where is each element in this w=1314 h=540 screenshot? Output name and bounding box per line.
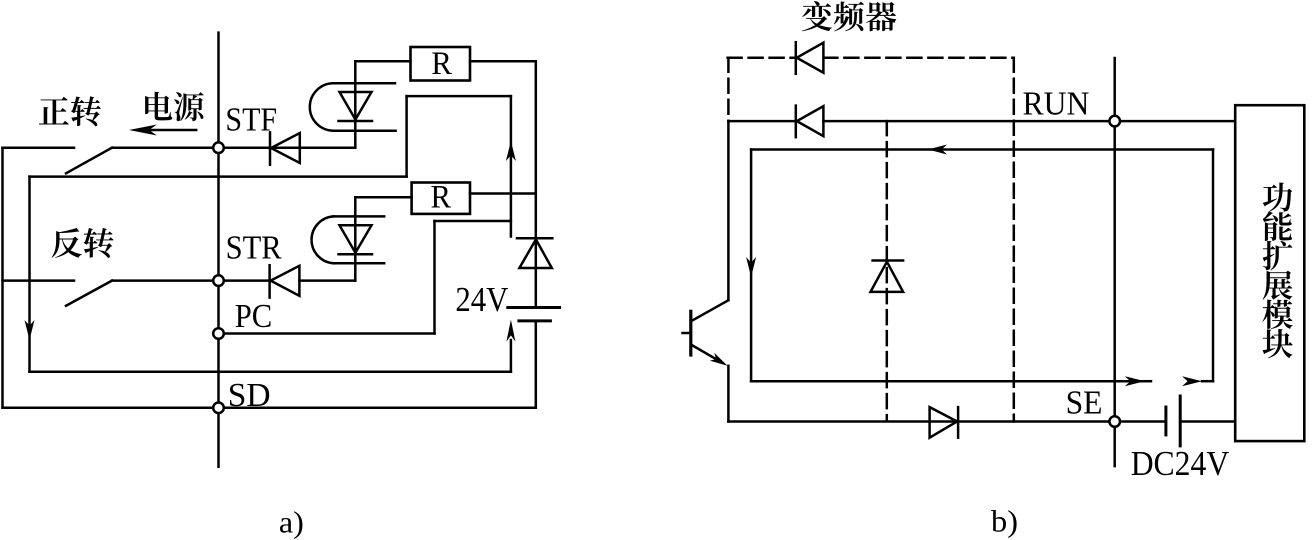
- label 变频器 (inverter): [802, 1, 896, 31]
- wire inner top horizontal: [30, 175, 407, 178]
- wire node-to-LED1: [219, 146, 356, 149]
- svg-text:a): a): [279, 505, 304, 540]
- wire PC: [219, 332, 435, 335]
- diode D2 (STR input): [270, 265, 300, 297]
- wire loop bottom-right (b): [1202, 380, 1213, 383]
- wire STR: [112, 279, 219, 282]
- svg-text:RUN: RUN: [1023, 86, 1090, 123]
- svg-text:R: R: [431, 180, 452, 216]
- wire loop top horizontal: [407, 95, 511, 98]
- optocoupler U2 LED (STR): [312, 197, 385, 280]
- wire loop top (b): [751, 148, 1213, 151]
- switch S1 正转 contact: [3, 148, 113, 174]
- arrow current down (b left): [746, 257, 756, 277]
- node SE terminal: [1109, 416, 1120, 427]
- diode D5 (freewheel, dashed): [871, 261, 904, 292]
- arrow current right (b bottom 1): [1125, 376, 1145, 386]
- wire SD left: [3, 407, 219, 410]
- resistor R2: [412, 180, 470, 216]
- wire R1-to-24V rail: [470, 60, 536, 63]
- arrow current down on inner left vertical: [25, 320, 35, 340]
- arrow current up toward 24V source: [506, 320, 515, 372]
- wire LED2-to-R2: [355, 196, 411, 199]
- wire loop left (b): [750, 150, 753, 382]
- wire RUN stub above: [1113, 58, 1116, 121]
- wire collector up: [727, 121, 730, 300]
- optocoupler U1 LED (STF): [310, 61, 396, 147]
- wire loop left vertical: [405, 96, 408, 177]
- label 正转 (forward): [39, 96, 101, 126]
- diode D3 (dashed RUN path): [796, 42, 824, 74]
- wire RUN left: [728, 120, 795, 123]
- wire loop right (b): [1212, 150, 1215, 382]
- label 电源 (power source): [145, 92, 204, 121]
- wire left outer vertical: [1, 148, 4, 408]
- svg-text:SE: SE: [1066, 384, 1103, 421]
- wire loop bottom horizontal: [30, 371, 511, 374]
- wire inner left vertical: [28, 177, 31, 372]
- wire dashed middle vertical: [886, 121, 889, 420]
- svg-text:DC24V: DC24V: [1131, 444, 1230, 483]
- svg-text:R: R: [431, 46, 452, 82]
- arrow current right (b bottom 2): [1182, 376, 1202, 386]
- transistor Q1 (open collector output): [683, 300, 729, 366]
- wire dashed right vertical: [1013, 58, 1016, 422]
- zener diode VZ (24V clamp): [517, 238, 552, 268]
- resistor R1: [411, 46, 471, 82]
- wire SD: [219, 407, 536, 410]
- node STR terminal: [213, 275, 224, 286]
- function expansion module box: [1235, 105, 1304, 441]
- wire STF: [112, 146, 219, 149]
- wire dashed left vertical: [727, 58, 730, 121]
- battery 24V cell: [508, 308, 560, 321]
- svg-text:STF: STF: [225, 102, 277, 139]
- wire LED1-to-R1: [355, 60, 410, 63]
- diode D1 (STF input): [270, 132, 300, 164]
- svg-text:STR: STR: [226, 229, 282, 266]
- node RUN terminal: [1109, 116, 1120, 127]
- wire D2-to-LED2: [299, 279, 355, 282]
- label 反转 (reverse): [51, 228, 113, 258]
- terminal bus vertical line: [217, 33, 220, 467]
- arrow 电源 direction (left): [129, 125, 196, 136]
- wire R2-to-24V rail: [470, 192, 536, 195]
- wire 24V rail upper: [535, 61, 538, 307]
- arrow current left (b top): [928, 145, 947, 155]
- label 功能扩展模块 (vertical): [1262, 182, 1292, 358]
- node SD terminal: [213, 403, 224, 414]
- svg-text:SD: SD: [228, 377, 271, 414]
- wire RUN: [823, 120, 1235, 123]
- arrow current up (upper): [506, 141, 516, 161]
- wire 24V rail lower: [535, 321, 538, 408]
- wire PC riser vertical: [433, 221, 436, 334]
- diode D4 (RUN input): [796, 106, 824, 138]
- svg-text:PC: PC: [235, 298, 273, 335]
- diode D6 (SE path): [930, 407, 959, 438]
- wire loop right vertical upper: [510, 96, 513, 236]
- wire SE: [728, 420, 1166, 423]
- wire PC riser top horizontal: [435, 220, 511, 223]
- svg-text:b): b): [991, 504, 1018, 539]
- wire emitter down: [727, 366, 730, 422]
- node PC terminal: [213, 328, 224, 339]
- svg-text:24V: 24V: [455, 280, 508, 319]
- wire RUN-SE vertical: [1113, 121, 1116, 421]
- wire dashed top-right: [823, 56, 1013, 59]
- node STF terminal: [213, 142, 224, 153]
- wire SE stub below: [1113, 422, 1116, 467]
- wire battery-to-module: [1180, 420, 1235, 423]
- wire dashed top-left: [728, 56, 796, 59]
- battery DC24V: [1166, 396, 1180, 446]
- switch S2 反转 contact: [3, 281, 113, 306]
- wire loop bottom-left (b): [751, 380, 1145, 383]
- wire node-to-D2: [219, 279, 270, 282]
